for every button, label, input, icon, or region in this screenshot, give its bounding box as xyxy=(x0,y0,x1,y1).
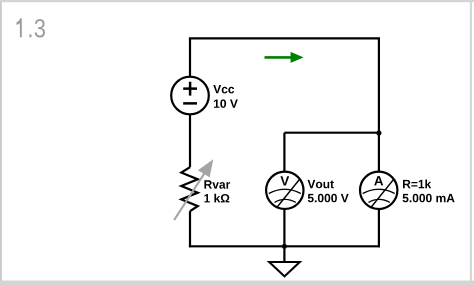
label Vcc xyxy=(213,85,234,93)
ammeter M2 xyxy=(360,172,397,209)
label Vout xyxy=(308,180,334,188)
voltmeter scale arc outer xyxy=(269,189,301,193)
voltmeter M1 xyxy=(266,172,303,209)
label R=1k xyxy=(403,180,431,189)
wire right vertical upper (to ammeter) xyxy=(378,38,380,171)
wire voltmeter top lead xyxy=(283,133,285,172)
wire top-left vertical (Vcc top lead) xyxy=(189,38,191,76)
value 5.000 mA xyxy=(403,194,455,203)
wire bottom horizontal xyxy=(189,245,380,247)
junction dot at tap node xyxy=(376,130,381,135)
junction dot at ground node xyxy=(282,244,287,249)
frame bottom bar xyxy=(0,281,474,285)
wire top horizontal xyxy=(189,37,380,39)
variable-resistor arrow xyxy=(174,159,213,220)
frame left edge xyxy=(0,2,2,281)
voltmeter circle xyxy=(266,172,303,209)
source circle xyxy=(171,77,209,115)
ammeter circle xyxy=(360,172,397,209)
arrow head xyxy=(198,159,213,177)
voltmeter scale arc inner xyxy=(275,199,296,202)
ground xyxy=(269,262,300,276)
wire tap horizontal (node between meters) xyxy=(284,132,379,134)
current arrow head xyxy=(291,52,304,63)
frame top edge xyxy=(0,0,474,2)
value 10 V xyxy=(214,99,238,108)
label Rvar xyxy=(204,180,230,188)
voltmeter needle xyxy=(276,179,299,208)
arrow shaft xyxy=(174,173,204,220)
ammeter scale arc inner xyxy=(369,199,390,202)
wire voltmeter bottom lead xyxy=(283,209,285,246)
wire resistor bottom to bottom-left corner xyxy=(189,211,191,247)
exercise number 1.3 xyxy=(17,18,46,37)
resistor Rvar zigzag xyxy=(181,167,198,211)
ammeter letter A xyxy=(374,176,383,185)
value 5.000 V xyxy=(308,194,349,203)
current direction arrow (green) xyxy=(265,52,304,63)
source polarity marks + and - xyxy=(183,82,197,104)
ammeter scale arc outer xyxy=(363,189,395,193)
frame right edge xyxy=(470,2,472,281)
wire right vertical lower (ammeter bottom) xyxy=(378,209,380,247)
wire Vcc bottom to resistor top xyxy=(189,114,191,167)
current arrow shaft xyxy=(265,56,293,59)
wire ground stub xyxy=(283,246,285,262)
value 1 kOhm xyxy=(204,194,229,203)
voltage source V1 (Vcc) xyxy=(171,77,209,115)
voltmeter letter V xyxy=(280,176,289,185)
ammeter needle xyxy=(371,179,394,208)
